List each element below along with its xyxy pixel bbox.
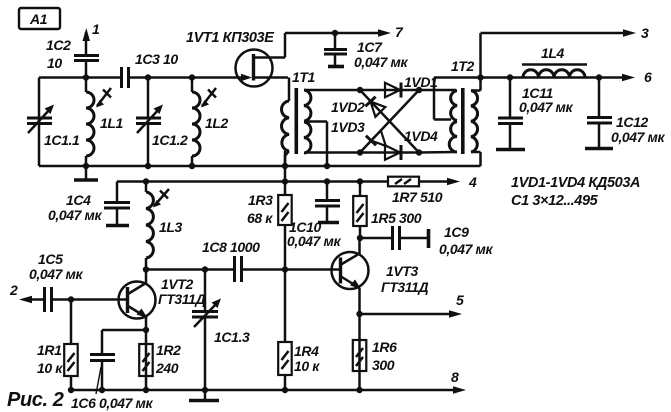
diode 1VD4 [385,128,438,160]
diode 1VD2 [331,97,385,117]
svg-text:1VТ1 КП303Е: 1VТ1 КП303Е [186,30,275,46]
ground stub below 1C1.3 [189,390,219,401]
wire: mixer bottom edge [360,151,419,154]
svg-text:1VТ2: 1VТ2 [161,276,193,292]
node: 1C11 junction [507,74,513,80]
resistor 1R1 [37,300,78,391]
node: 1C1.3 on bus [202,387,208,393]
svg-text:1С1.3: 1С1.3 [214,329,250,345]
capacitor 1C11 [496,78,573,150]
node: 1C1.2 bottom [145,163,151,169]
node: collector / 1L3 bottom [143,266,149,272]
svg-text:1Т1: 1Т1 [292,69,316,85]
svg-text:0,047 мк: 0,047 мк [439,241,493,257]
svg-text:5: 5 [456,292,464,308]
svg-text:1С12: 1С12 [616,114,648,130]
svg-text:1L2: 1L2 [205,115,229,131]
wire: output 5 line [360,313,451,316]
inductor 1L3 [146,182,183,271]
capacitor 1C4 [48,182,130,226]
svg-text:1R6: 1R6 [372,339,397,355]
node D: mixer bottom-right [416,149,422,155]
svg-text:С1 3×12...495: С1 3×12...495 [511,193,599,209]
svg-text:1С4: 1С4 [66,192,91,208]
svg-text:8: 8 [451,369,459,385]
wire: input top rail y=77 [39,76,288,79]
variable capacitor 1C1.2 [136,78,188,167]
capacitor 1C10 [287,182,341,250]
diode 1VD1 [385,74,438,98]
capacitor 1C9 [360,224,493,257]
capacitor 1C3 [122,51,179,88]
svg-text:1L3: 1L3 [159,219,183,235]
svg-text:10: 10 [47,55,62,71]
svg-text:1R7 510: 1R7 510 [392,189,443,205]
node: 1C6 bottom on bus [99,387,105,393]
svg-text:1VD1-1VD4 КД503А: 1VD1-1VD4 КД503А [511,175,640,191]
resistor 1R6 [353,339,397,373]
svg-text:1С2: 1С2 [46,37,71,53]
node: 1L2 bottom [189,163,195,169]
variable capacitor 1C1.3 [192,270,250,391]
wire: 1VT2 collector line [146,268,235,271]
trimmer arrow of 1L2 [201,88,216,108]
svg-text:1С1.2: 1С1.2 [152,132,188,148]
capacitor 1C5 [29,251,83,312]
output terminal 2 [9,282,44,303]
inductor 1L2 [192,78,229,167]
node: center-tap / secondary-top tie [477,74,483,80]
svg-text:300: 300 [372,357,395,373]
svg-text:1VТ3: 1VТ3 [386,263,418,279]
node: 1R5 top on rail [357,178,363,184]
variable capacitor 1C1.1 [27,105,80,149]
node: 1C3 / 1C1.2 junction [145,74,151,80]
inductor 1L4 [522,45,587,78]
svg-text:10 к: 10 к [37,360,63,376]
svg-text:240: 240 [155,360,179,376]
node: 1R4 bottom on bus [282,387,288,393]
wire: base line of 1VT3 [285,268,339,271]
transistor Q 1VT2 GT311D [119,270,206,319]
svg-text:0,047 мк: 0,047 мк [519,99,573,115]
wire: 1VT2 emitter branch [145,317,148,390]
svg-text:3: 3 [641,25,649,41]
svg-text:1R4: 1R4 [294,343,319,359]
svg-text:1VD2: 1VD2 [331,99,365,115]
node: T1 center tap on bus [324,163,330,169]
node A: mixer top-left [357,87,363,93]
trimmer arrow of 1L3 [153,189,169,208]
svg-text:А1: А1 [29,11,48,27]
svg-text:0,047 мк: 0,047 мк [29,266,83,282]
svg-text:68 к: 68 к [247,210,273,226]
note: diode and gang types [511,175,640,209]
wire: node C to 1T2 [419,89,456,92]
svg-text:1R5 300: 1R5 300 [371,210,422,226]
resistor 1R3 [247,151,292,270]
output terminal 3 [623,25,649,41]
wire: mixer diagonal B-C [360,90,419,153]
capacitor 1C6 [71,330,153,411]
svg-text:1VD3: 1VD3 [331,119,365,135]
antenna input terminal 1 [83,21,101,56]
wire: bottom bus y=390 [71,389,454,392]
svg-text:1С1.1: 1С1.1 [44,132,80,148]
svg-text:Рис. 2: Рис. 2 [7,389,64,411]
output terminal 7 [378,24,404,40]
wire: left vertical branch [38,78,41,167]
capacitor 1C8 [202,239,285,282]
svg-text:1С6 0,047 мк: 1С6 0,047 мк [71,395,153,411]
node B: mixer bottom-left [357,149,363,155]
svg-text:1С7: 1С7 [357,39,383,55]
capacitor 1C7 [324,33,408,70]
wire: base line of 1VT2 [71,298,126,301]
svg-text:0,047 мк: 0,047 мк [611,129,665,145]
svg-text:6: 6 [644,69,652,85]
resistor R 1R7 [388,177,443,205]
svg-text:1С8 1000: 1С8 1000 [202,239,260,255]
output terminal 8 [451,369,466,394]
svg-text:1R3: 1R3 [248,192,273,208]
svg-text:0,047 мк: 0,047 мк [48,207,102,223]
transformer 1T1 [282,69,360,166]
inductor 1L1 [86,78,124,167]
svg-text:0,047 мк: 0,047 мк [287,233,341,249]
node: 1R5 bottom / collector [357,235,363,241]
svg-text:1R2: 1R2 [156,342,181,358]
svg-text:1С9: 1С9 [444,224,469,240]
node: emitter / output 5 [356,311,362,317]
svg-text:1Т2: 1Т2 [451,58,475,74]
node: 1C1.3 top [202,266,208,272]
svg-text:1С5: 1С5 [38,251,63,267]
diode 1VD3 [331,119,386,146]
wire: mixer diagonal A-D [360,90,419,153]
svg-text:4: 4 [468,174,477,190]
node: 1R3 top on rail [282,178,288,184]
node: 1C2 / 1L1 junction [83,74,89,80]
node C: mixer top-right [416,87,422,93]
wire: 1VT3 emitter branch [358,288,361,390]
wire: drain line to outputs [285,32,379,35]
node: 1L2 / gate junction [189,74,195,80]
node: 1L3 top on rail [143,178,149,184]
wire: IF output line y=77 [434,76,623,79]
node: 1R1 bottom on bus [68,387,74,393]
wire: supply rail y=181.5 [117,180,388,183]
node: 1C7 junction [332,30,338,36]
output terminal 6 [622,69,652,85]
wire: rail to output 4 [419,180,448,183]
wire: common bus y=166 [39,165,481,168]
svg-text:1: 1 [92,21,100,37]
wire: node D to 1T2 [419,151,456,154]
node: emitter / 1C6 [143,327,149,333]
node: 1L1 bottom [83,163,89,169]
svg-text:0,047 мк: 0,047 мк [354,54,408,70]
node: 1R3 bottom / base of 1VT3 [282,266,288,272]
transistor U 1VT1 KP303E (FET) [186,30,285,87]
ground stub below 1L1 [74,166,98,180]
trimmer arrow of 1L1 [96,88,111,108]
svg-text:1L1: 1L1 [100,115,124,131]
svg-text:1С3 10: 1С3 10 [135,51,178,67]
svg-text:1L4: 1L4 [541,45,565,61]
svg-text:1R1: 1R1 [37,342,62,358]
node: base of 1VT2 / 1R1 [68,296,74,302]
node: 1R6 bottom on bus [356,387,362,393]
capacitor 1C12 [585,78,665,149]
resistor 1R2 [139,342,181,376]
node: T1 primary bottom on bus [282,163,288,169]
svg-text:10 к: 10 к [294,358,320,374]
node: 1C12 junction [596,74,602,80]
svg-text:ГТ311Д: ГТ311Д [381,279,428,295]
output terminal 5 [449,292,464,318]
node: 1C10 top on rail [324,178,330,184]
resistor 1R4 [278,270,320,391]
svg-text:ГТ311Д: ГТ311Д [158,291,205,307]
transistor Q 1VT3 GT311D [332,238,429,295]
resistor 1R5 [353,182,422,239]
capacitor 1C2 [46,37,99,78]
output terminal 4 [447,174,477,190]
node: 1R2 bottom on bus [143,387,149,393]
transformer 1T2 [434,33,481,166]
module box A1 [19,8,60,29]
wire: output 3 line [481,32,625,35]
svg-text:2: 2 [9,282,18,298]
wire: mixer top edge [360,89,419,92]
